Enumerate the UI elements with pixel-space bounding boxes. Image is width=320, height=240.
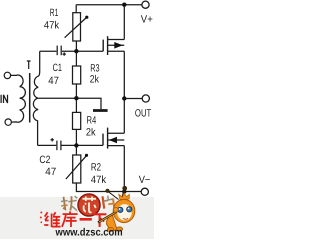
svg-text:47: 47 — [45, 166, 56, 178]
svg-text:C1: C1 — [53, 62, 62, 74]
svg-text:R4: R4 — [87, 115, 97, 127]
svg-text:www.dzsc.com: www.dzsc.com — [55, 227, 123, 239]
svg-text:47: 47 — [48, 75, 59, 87]
svg-text:R2: R2 — [91, 161, 101, 173]
svg-text:47k: 47k — [44, 20, 60, 32]
svg-text:V−: V− — [139, 174, 151, 186]
svg-text:2k: 2k — [90, 74, 100, 86]
svg-text:2k: 2k — [86, 126, 96, 138]
svg-text:OUT: OUT — [135, 108, 152, 120]
svg-text:47k: 47k — [91, 174, 107, 186]
svg-text:R1: R1 — [50, 7, 59, 19]
svg-text:C2: C2 — [39, 154, 50, 166]
svg-text:V+: V+ — [141, 14, 153, 26]
